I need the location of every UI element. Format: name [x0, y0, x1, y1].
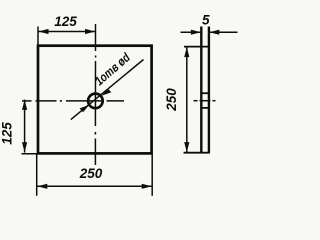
svg-text:125: 125: [54, 14, 77, 29]
horizontal centerline of plate: [22, 100, 124, 102]
top dimension extension line (left edge extended up): [37, 27, 39, 46]
left dimension line 125: [24, 100, 26, 153]
side view hole centerline: [194, 100, 216, 102]
leader arrowhead upper: [102, 89, 112, 96]
side view height dimension bottom arrowhead: [184, 142, 189, 152]
bottom dimension left arrowhead: [37, 184, 47, 189]
vertical centerline of plate: [94, 24, 96, 165]
top dimension left arrowhead: [38, 29, 48, 34]
top dimension right arrowhead: [85, 29, 95, 34]
side view hole top edge line: [200, 92, 209, 94]
thickness dimension left arrowhead: [191, 30, 201, 35]
side view bottom edge line with extension: [184, 152, 210, 154]
bottom dimension line 250: [37, 185, 152, 187]
thickness dimension right arrowhead: [209, 30, 219, 35]
leader line: [71, 60, 144, 120]
hole circle: [88, 94, 103, 109]
left dimension bottom arrowhead: [22, 142, 27, 152]
left dimension top arrowhead: [22, 100, 27, 110]
side view hole bottom edge line: [200, 107, 209, 109]
bottom dimension right arrowhead: [142, 184, 152, 189]
side view height dimension top arrowhead: [184, 47, 189, 57]
thickness dimension line 5 right part: [209, 31, 238, 33]
svg-text:5: 5: [202, 13, 210, 28]
svg-text:125: 125: [0, 122, 15, 145]
svg-text:250: 250: [79, 166, 103, 181]
side view right edge line: [208, 27, 210, 153]
side view left edge line: [200, 27, 202, 153]
top dimension line 125: [38, 31, 96, 33]
side view height dimension line 250: [186, 47, 188, 153]
left dimension bottom extension line: [22, 153, 39, 155]
plate front view outline: [38, 46, 152, 154]
leader arrowhead lower: [80, 105, 90, 112]
svg-text:1отв ød: 1отв ød: [92, 50, 133, 88]
thickness dimension line 5 left part: [181, 31, 202, 33]
bottom dimension extension line left: [36, 154, 38, 196]
svg-text:250: 250: [164, 88, 179, 112]
bottom dimension extension line right: [151, 154, 153, 196]
side view top edge line with extension: [184, 46, 210, 48]
